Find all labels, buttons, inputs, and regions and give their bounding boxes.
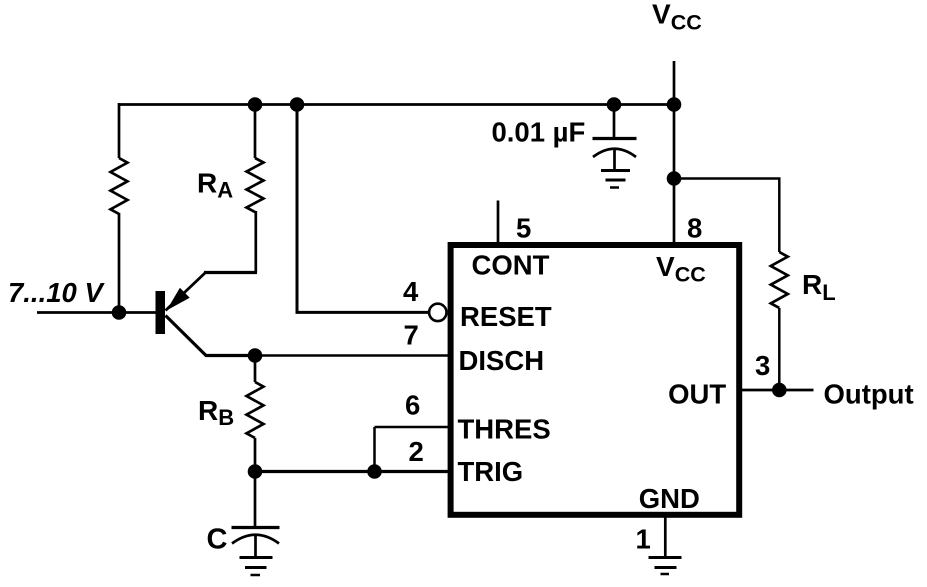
wire left rail lower	[118, 213, 121, 313]
svg-text:0.01 µF: 0.01 µF	[492, 117, 586, 148]
node TRIG/THRES junction	[367, 464, 382, 479]
svg-text:Output: Output	[824, 379, 914, 410]
wire emitter horizontal	[204, 271, 257, 274]
transistor Q1 base bar	[156, 291, 166, 334]
transistor Q1 collector diagonal	[166, 316, 207, 357]
svg-text:5: 5	[516, 213, 531, 244]
wire 0.01uF top lead	[613, 105, 616, 139]
ground under C	[240, 558, 273, 576]
svg-text:GND: GND	[639, 483, 700, 514]
svg-text:TRIG: TRIG	[458, 456, 524, 487]
svg-text:RESET: RESET	[460, 301, 552, 332]
wire Vcc drop	[673, 61, 676, 242]
node Vcc / RL junction	[667, 171, 682, 186]
resistor RL	[771, 252, 788, 308]
RESET inverter bubble pin 4	[429, 304, 446, 321]
svg-text:3: 3	[755, 350, 770, 381]
ground under 0.01uF	[601, 171, 630, 188]
ground at pin 1	[649, 558, 682, 575]
wire TRIG pin 2	[255, 470, 448, 473]
svg-text:1: 1	[636, 524, 651, 555]
wire RL top feed	[674, 179, 779, 253]
svg-text:OUT: OUT	[668, 379, 726, 410]
svg-text:8: 8	[687, 213, 702, 244]
wire OUT pin 3	[741, 389, 814, 392]
transistor Q1 emitter diagonal	[166, 273, 206, 311]
resistor RA	[247, 158, 264, 212]
resistor R1 (left unlabeled)	[111, 158, 128, 214]
wire base of Q1	[119, 311, 156, 314]
node Vcc rail junction	[667, 97, 682, 112]
node RB/C/TRIG junction	[248, 464, 263, 479]
svg-text:7: 7	[404, 320, 419, 351]
wire THRES pin 6	[375, 426, 449, 429]
node collector/discharge junction	[248, 348, 263, 363]
node Vcc / 0.01uF junction	[607, 97, 622, 112]
svg-text:C: C	[207, 524, 228, 556]
node top rail junction B	[290, 97, 305, 112]
wire THRES riser	[373, 427, 376, 472]
capacitor 0.01uF top plate	[593, 137, 637, 140]
svg-text:2: 2	[409, 436, 424, 467]
wire RL bottom	[778, 308, 781, 390]
svg-text:6: 6	[405, 390, 420, 421]
wire RA top drop	[254, 103, 257, 158]
op-amp U1 555 timer box	[451, 245, 740, 515]
svg-text:CONT: CONT	[472, 249, 550, 280]
svg-text:DISCH: DISCH	[459, 345, 545, 376]
node OUT junction	[772, 383, 787, 398]
wire 0.01uF bottom lead	[613, 149, 616, 171]
wire top rail from R1/RA top to Vcc node	[119, 103, 674, 106]
wire GND pin 1 lead	[664, 515, 667, 558]
wire RA bottom to emitter corner	[254, 211, 257, 273]
wire input feed 7..10V	[37, 311, 120, 314]
wire capacitor C top lead	[254, 472, 257, 528]
wire RESET net from top rail	[297, 103, 429, 312]
capacitor C curved plate	[232, 535, 279, 544]
node top rail junction A	[248, 97, 263, 112]
wire RB bottom	[254, 438, 257, 472]
svg-text:THRES: THRES	[458, 414, 551, 445]
wire capacitor C bottom lead	[254, 535, 257, 558]
wire DISCH pin 7	[255, 354, 448, 357]
svg-text:4: 4	[403, 276, 419, 307]
capacitor 0.01uF curved plate	[593, 149, 636, 157]
node input junction	[112, 305, 127, 320]
wire collector horizontal	[205, 354, 256, 357]
wire RB top	[254, 356, 257, 383]
wire CONT pin 5 stub	[497, 201, 500, 243]
svg-text:7...10 V: 7...10 V	[8, 277, 105, 308]
capacitor C top plate	[232, 526, 280, 529]
resistor RB	[247, 382, 264, 438]
transistor Q1 emitter arrow (PNP)	[167, 288, 190, 311]
wire left rail upper	[118, 103, 121, 158]
